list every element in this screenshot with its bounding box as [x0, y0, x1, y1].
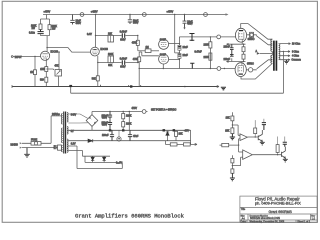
junction — [255, 136, 256, 137]
transformer T2 mains primary bumps — [61, 114, 62, 152]
svg-text:ECC83: ECC83 — [100, 49, 108, 51]
wire cathode lower — [227, 54, 246, 63]
op-amp U1B — [243, 150, 253, 160]
title block cell dividers — [247, 214, 311, 222]
wire cathode bypass branch — [46, 52, 59, 86]
rail end terminal — [226, 13, 229, 16]
wire HT secondary to bridge — [68, 114, 87, 123]
junction — [163, 68, 164, 69]
svg-text:ph. 0409-PHONE-BILL-FIX: ph. 0409-PHONE-BILL-FIX — [255, 202, 301, 206]
resistor R19 cathode — [242, 54, 245, 59]
top rail fuse bead 2 — [204, 13, 208, 17]
input network resistor R28 — [222, 143, 229, 146]
transformer T1 core — [274, 41, 277, 71]
capacitor C11b reservoir — [108, 119, 112, 130]
resistor R15 220K — [209, 53, 211, 69]
svg-text:6CG7: 6CG7 — [160, 39, 167, 41]
wire mains live — [22, 116, 63, 143]
HT rail — [92, 111, 148, 113]
junction coupling — [46, 47, 47, 48]
resistor R9 470K grid — [137, 36, 139, 51]
LED D6 — [117, 137, 121, 141]
rail bead B — [80, 13, 84, 17]
wire plate tie — [41, 30, 50, 52]
svg-text:6CG7: 6CG7 — [160, 55, 167, 57]
svg-text:22uF: 22uF — [183, 55, 189, 57]
transistor Q1 — [258, 130, 262, 141]
wire plate lower to OPT — [241, 63, 272, 79]
resistor R25 — [231, 116, 234, 121]
svg-text:240Vac: 240Vac — [52, 114, 60, 116]
diode D9 — [103, 156, 106, 162]
wire driver plate vertical — [178, 37, 180, 69]
diode D8 — [91, 156, 94, 162]
tube V5 6550C lower — [235, 63, 246, 77]
svg-text:22uF: 22uF — [183, 47, 189, 49]
resistor R30 — [231, 169, 234, 173]
wire V1 grid input — [13, 56, 41, 58]
svg-text:Date:: Date: — [241, 220, 247, 223]
svg-text:MAINS: MAINS — [11, 143, 19, 146]
resistor R18 cathode — [242, 47, 245, 52]
wire bias line — [93, 140, 191, 142]
resistor R20 bleeder — [122, 112, 124, 122]
connector box P1 — [58, 145, 62, 150]
svg-text:Grant Amplifiers 660RMS MonoBl: Grant Amplifiers 660RMS MonoBlock — [75, 213, 185, 220]
heater wire 2 — [68, 151, 82, 157]
wire plate upper to OPT — [241, 24, 273, 40]
wire bias winding — [68, 140, 88, 142]
Q2 emitter ground — [283, 158, 288, 162]
junction — [97, 62, 98, 63]
svg-text:56K: 56K — [92, 79, 97, 81]
Q1 emitter ground — [260, 141, 265, 145]
transformer T1 primary winding — [271, 39, 273, 63]
svg-text:350V: 350V — [133, 23, 139, 25]
transformer T2 secondary bumps — [67, 113, 68, 153]
bus left terminal — [11, 85, 13, 88]
grid stopper bead lower — [217, 67, 221, 71]
resistor R21 bleeder — [122, 122, 125, 127]
resistor R22 — [175, 130, 177, 140]
svg-text:220uF: 220uF — [224, 59, 231, 61]
wire mains neutral — [22, 147, 63, 149]
wire NFB — [71, 52, 284, 94]
wire UL tap lower — [257, 60, 273, 69]
wire grid leak drop — [34, 57, 36, 87]
resistor R23 — [170, 143, 177, 146]
svg-text:470V: 470V — [132, 108, 138, 110]
junction — [137, 35, 138, 36]
junction — [243, 44, 244, 45]
wire splitter top output — [96, 35, 138, 37]
wire rail drop to driver plates — [175, 15, 180, 53]
ground at common — [284, 60, 289, 64]
svg-text:0V: 0V — [71, 131, 74, 133]
junction — [184, 86, 186, 88]
wire cathode upper — [227, 42, 246, 54]
resistor R26 — [231, 128, 234, 134]
fuse F1 — [31, 142, 41, 146]
junction NFB — [283, 51, 284, 52]
mid rail 0V — [68, 129, 190, 131]
junction plate upper — [179, 43, 180, 44]
svg-text:A4: A4 — [242, 216, 246, 220]
heater wire 1 — [68, 146, 77, 169]
junction chain mid — [232, 124, 233, 125]
tube V3a 6CG7 — [159, 39, 169, 49]
svg-text:660RMS MonoBlock.DSN: 660RMS MonoBlock.DSN — [250, 216, 280, 220]
svg-text:1M: 1M — [30, 72, 33, 74]
svg-text:0.4V: 0.4V — [87, 34, 92, 36]
wire V2 cathode down — [97, 56, 99, 87]
wire B+ top rail — [43, 14, 227, 16]
wire bridge minus down — [91, 126, 93, 130]
title block row lines — [240, 207, 317, 220]
capacitor C8 22uF — [183, 15, 187, 29]
junction — [238, 144, 239, 145]
wire into driver — [151, 50, 159, 52]
svg-text:450V: 450V — [102, 118, 108, 120]
wire input junction vertical — [238, 139, 240, 152]
resistor R8 100K — [108, 56, 114, 63]
junction — [277, 154, 278, 155]
junction — [95, 35, 96, 36]
svg-text:6550C: 6550C — [248, 39, 255, 41]
svg-text:450V: 450V — [102, 125, 108, 127]
resistor R24 — [184, 143, 191, 146]
junction mid — [179, 52, 180, 53]
svg-text:-65V: -65V — [184, 131, 189, 133]
wire second stage drop — [128, 112, 130, 131]
wire V1 cathode — [45, 59, 47, 87]
wire chain — [231, 121, 233, 128]
resistor R10 470K grid — [138, 52, 139, 63]
wire bus drop — [138, 63, 140, 87]
wire rail drop to V1 plate resistors — [41, 15, 50, 25]
capacitor C7 10uF — [128, 15, 132, 25]
svg-text:220K: 220K — [204, 45, 210, 47]
tube V2 ECC83 phase splitter — [91, 47, 100, 56]
junction blob mid rail — [109, 129, 112, 131]
svg-text:0.22u: 0.22u — [29, 33, 35, 35]
svg-text:220K: 220K — [204, 57, 210, 59]
resistor R6 22K — [108, 36, 114, 43]
svg-text:470K: 470K — [132, 43, 138, 45]
capacitor C16 — [283, 142, 287, 147]
junction ticks — [101, 85, 141, 87]
junction — [123, 111, 124, 112]
junction plate lower — [179, 59, 180, 60]
wire coupling V1 to V2 — [47, 48, 91, 53]
svg-text:100K: 100K — [108, 54, 114, 56]
trimpot VR1 — [55, 70, 62, 77]
wire UL tap upper — [257, 36, 273, 45]
svg-text:6.3V: 6.3V — [71, 144, 76, 146]
input terminal — [11, 56, 13, 58]
svg-text:Sheet 1 of 1: Sheet 1 of 1 — [297, 220, 311, 223]
svg-text:340V: 340V — [71, 115, 77, 117]
junction — [210, 36, 211, 37]
resistor R25 chain top stub — [231, 112, 233, 116]
tube V4 6550C upper — [235, 28, 246, 42]
svg-text:6...3V: 6...3V — [116, 162, 122, 164]
junction — [232, 165, 233, 166]
junction blob mid rail 2 — [122, 129, 125, 131]
tube V1 ECC83 — [41, 51, 50, 60]
resistor R2 100K 2W — [48, 25, 51, 30]
junction blob NFB at bus — [69, 85, 72, 87]
wire feedback — [232, 157, 240, 165]
junction blob — [130, 85, 132, 87]
junction — [137, 62, 138, 63]
svg-text:0.47uF: 0.47uF — [195, 52, 203, 54]
capacitor C2 22uF — [70, 15, 74, 25]
title block outline — [240, 196, 317, 222]
junction grid — [34, 56, 35, 57]
wire plate upper — [169, 43, 180, 45]
capacitor C10 cathode bypass — [230, 54, 234, 57]
capacitor C13 bias — [128, 130, 132, 140]
wire U1A output — [247, 136, 258, 138]
svg-text:10K: 10K — [179, 134, 184, 136]
junction — [243, 61, 244, 62]
wire U1A inv input — [239, 138, 240, 140]
junction — [109, 111, 110, 112]
junction — [139, 68, 140, 69]
wire to driver grid upper — [138, 50, 145, 52]
junction — [95, 14, 96, 15]
svg-text:10K: 10K — [225, 131, 230, 133]
wire U1B plus input — [239, 151, 243, 153]
svg-text:16 Ohm: 16 Ohm — [292, 44, 300, 46]
wire bridge plus up — [91, 112, 93, 115]
feedthrough dark element lower — [190, 63, 194, 69]
wire 16 ohm tap — [280, 43, 291, 45]
wire plate lower — [169, 59, 180, 61]
resistor R4 1K5 — [45, 67, 48, 72]
svg-text:6550C: 6550C — [247, 64, 254, 66]
svg-text:Grant 660RMS: Grant 660RMS — [269, 210, 293, 214]
svg-text:FUSE: FUSE — [31, 139, 38, 141]
svg-text:0.68uF: 0.68uF — [120, 32, 128, 34]
svg-text:INPUT: INPUT — [15, 57, 22, 59]
wire upper grid — [179, 36, 235, 38]
svg-text:47K: 47K — [55, 66, 60, 68]
svg-text:2W: 2W — [52, 29, 56, 31]
capacitor C6 coupling — [178, 54, 181, 59]
wire relay row — [165, 141, 197, 145]
svg-text:630V: 630V — [120, 67, 126, 69]
capacitor C15 — [262, 122, 266, 130]
junction — [210, 68, 211, 69]
svg-text:1.0: 1.0 — [312, 217, 316, 220]
svg-text:4 Ohm: 4 Ohm — [292, 56, 299, 58]
resistor R1 100K 2W — [39, 24, 42, 30]
capacitor C3 — [122, 33, 124, 38]
resistor R7 cathode — [96, 76, 99, 81]
svg-text:+470V: +470V — [44, 12, 51, 14]
junction pot wiper — [58, 51, 60, 53]
feedthrough dark element upper — [189, 33, 194, 41]
svg-text:Floyd P/L Audio Repair: Floyd P/L Audio Repair — [255, 196, 300, 201]
svg-text:820: 820 — [40, 80, 45, 82]
svg-text:100uF: 100uF — [102, 135, 109, 137]
capacitor C4 — [122, 60, 124, 65]
junction blob zener tap — [163, 129, 166, 131]
line filter cap on neutral — [54, 145, 56, 149]
svg-text:1M: 1M — [146, 47, 149, 49]
svg-text:630V: 630V — [120, 40, 126, 42]
resistor R27 above — [254, 120, 256, 137]
wire 4 ohm tap — [280, 55, 290, 57]
capacitor C12 bias — [110, 130, 114, 140]
wire driver cathode drop — [162, 64, 164, 69]
wire V2 plate — [95, 15, 97, 48]
svg-text:+470V: +470V — [167, 12, 174, 14]
diode D5 — [88, 139, 93, 142]
capacitor C11a reservoir — [108, 112, 112, 120]
svg-text:450V: 450V — [76, 23, 82, 25]
junction — [224, 68, 225, 69]
svg-text:2W: 2W — [32, 28, 36, 30]
resistor R14 220K — [209, 37, 211, 53]
arrow terminal — [195, 143, 197, 145]
resistor R5 820R — [45, 77, 48, 82]
top rail fuse bead — [142, 13, 146, 17]
resistor R3 1M — [34, 70, 37, 75]
svg-text:ECC83: ECC83 — [51, 52, 59, 54]
junction blob — [173, 129, 176, 131]
HT fuse bead — [142, 110, 146, 114]
svg-text:450V: 450V — [187, 24, 193, 26]
svg-text:82K: 82K — [108, 65, 113, 67]
svg-text:0.68uF: 0.68uF — [120, 58, 128, 60]
heater rect wires — [77, 156, 122, 168]
junction — [184, 14, 185, 15]
wire chain tap to op-amp — [232, 125, 240, 135]
wire loop right — [190, 130, 192, 144]
svg-text:470K: 470K — [133, 59, 139, 61]
screen resistor R17 — [246, 69, 256, 71]
bridge rectifier D1-D4 — [86, 115, 98, 127]
ground bus — [12, 86, 219, 88]
junction — [174, 14, 175, 15]
wire splitter bottom output — [98, 62, 138, 64]
transistor Q2 — [282, 147, 286, 158]
svg-text:8 Ohm: 8 Ohm — [292, 52, 299, 54]
capacitor C5 coupling — [178, 45, 181, 50]
wire lower grid — [139, 68, 235, 70]
zener D7 — [166, 131, 169, 141]
svg-text:Title: Title — [241, 208, 246, 211]
junction — [129, 111, 130, 112]
svg-text:22K: 22K — [108, 34, 113, 36]
transformer T2 core — [64, 112, 66, 154]
svg-text:220uF: 220uF — [224, 47, 231, 49]
junction — [129, 14, 130, 15]
ground below R30 — [230, 173, 235, 181]
capacitor C9 cathode bypass — [230, 44, 234, 53]
wire to driver grid lower — [139, 52, 159, 56]
wire U1B output long — [252, 154, 281, 156]
wire 8 ohm tap — [280, 51, 290, 53]
svg-text:Wednesday, December 06, 2006: Wednesday, December 06, 2006 — [250, 220, 285, 223]
svg-text:1K5: 1K5 — [40, 69, 45, 71]
ground below chain — [230, 134, 235, 140]
svg-text:47uF: 47uF — [133, 136, 139, 138]
capacitor C1 0.22uF — [38, 30, 44, 34]
wire B+ centre tap feed with net arrow A — [260, 52, 273, 54]
screen resistor R16 — [247, 35, 257, 36]
earth ground — [24, 148, 30, 158]
tube V3b 6CG7 — [159, 54, 169, 64]
wire U1B inv input — [241, 156, 243, 158]
mains terminals — [20, 142, 22, 148]
feedback chain resistor R29 — [231, 155, 233, 158]
resistor R11 driver grid — [145, 49, 151, 53]
svg-text:+415V: +415V — [91, 12, 98, 14]
transformer T1 secondary — [279, 44, 280, 60]
svg-text:SET POINT A = 475VDC: SET POINT A = 475VDC — [151, 109, 177, 112]
ground symbol at bus end — [217, 86, 219, 88]
svg-text:Common: Common — [292, 60, 302, 62]
svg-text:10K: 10K — [226, 118, 231, 120]
op-amp U1A — [240, 134, 247, 141]
resistor R31 — [277, 137, 279, 155]
grid stopper bead upper — [217, 35, 221, 39]
wire common tap — [280, 59, 290, 61]
